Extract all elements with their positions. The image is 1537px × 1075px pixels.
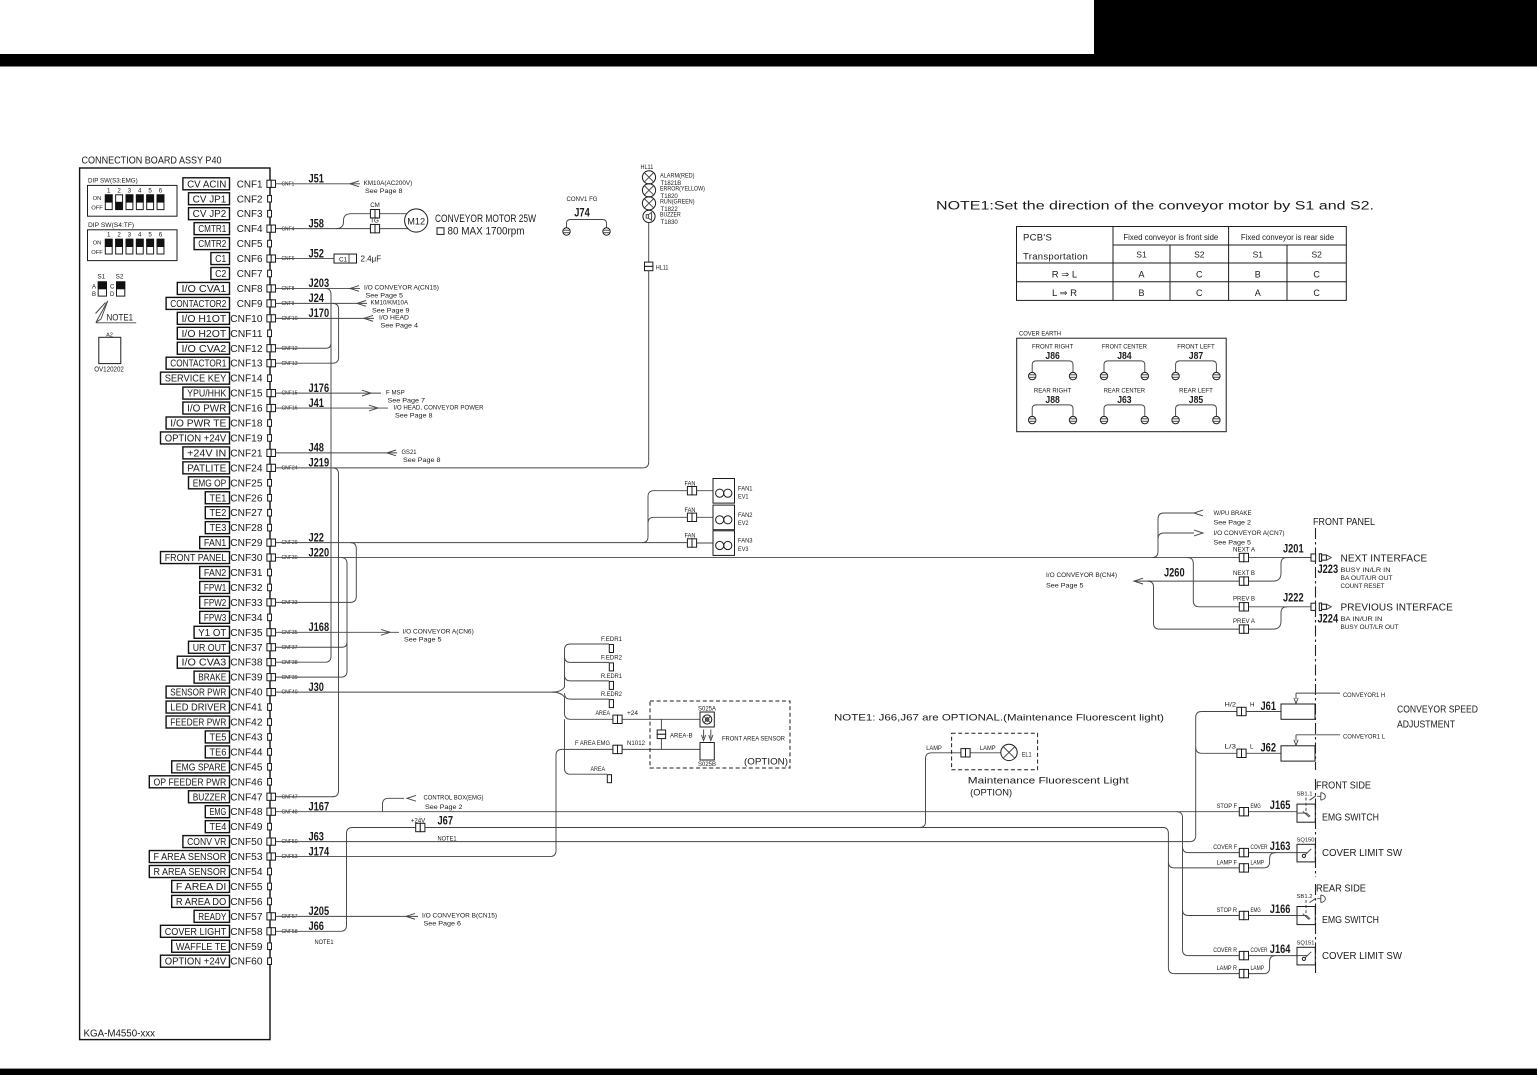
svg-text:CNF42: CNF42 <box>230 718 263 729</box>
svg-text:CONVEYOR1 L: CONVEYOR1 L <box>1343 734 1385 741</box>
connector CNF16 (I/O PWR) <box>183 396 324 415</box>
svg-text:CNF30: CNF30 <box>230 553 263 564</box>
svg-text:J224: J224 <box>1318 612 1339 626</box>
plug J201/J223 NEXT INTERFACE <box>1283 542 1428 590</box>
wire COVER F row <box>1189 852 1298 854</box>
svg-text:J86: J86 <box>1045 350 1060 362</box>
connector CNF21 (+24V IN) <box>183 441 324 460</box>
svg-text:CNF11: CNF11 <box>230 329 263 340</box>
connector CNF60 (OPTION +24V) <box>161 955 272 968</box>
svg-text:S2: S2 <box>1311 250 1322 260</box>
svg-text:AREA: AREA <box>591 766 606 773</box>
svg-text:CNF32: CNF32 <box>230 583 263 594</box>
fan bus vertical <box>642 491 687 543</box>
svg-text:R AREA DO: R AREA DO <box>176 897 227 908</box>
svg-text:NEXT INTERFACE: NEXT INTERFACE <box>1341 553 1428 564</box>
wire J66 (CNF58) <box>276 828 353 932</box>
EMG switch SB1.1 <box>1297 792 1326 823</box>
connector CNF12 (I/O CVA2) <box>177 342 297 355</box>
svg-text:See Page 5: See Page 5 <box>1214 539 1252 546</box>
svg-text:F.EDR2: F.EDR2 <box>601 654 623 661</box>
wire J24 (CNF9) <box>276 300 410 315</box>
svg-text:CM: CM <box>370 202 380 209</box>
wire LAMP R row joins <box>1174 956 1275 974</box>
wire J48 (CNF21) <box>276 449 441 464</box>
connector CNF3 (CV JP2) <box>189 208 272 221</box>
svg-text:+24: +24 <box>627 710 639 717</box>
svg-text:SQ151: SQ151 <box>1297 940 1315 946</box>
svg-text:SQ150: SQ150 <box>1297 837 1315 843</box>
svg-text:CNF33: CNF33 <box>230 598 263 609</box>
svg-text:ON: ON <box>93 241 102 247</box>
stub F.EDR1 <box>601 636 623 653</box>
svg-text:CNF27: CNF27 <box>230 508 263 519</box>
svg-text:I/O PWR: I/O PWR <box>187 404 226 415</box>
svg-text:D: D <box>110 292 115 298</box>
svg-text:NOTE1: J66,J67 are OPTIONAL.(M: NOTE1: J66,J67 are OPTIONAL.(Maintenance… <box>834 713 1164 724</box>
svg-text:KGA-M4550-xxx: KGA-M4550-xxx <box>84 1029 156 1040</box>
connector CNF53 (F AREA SENSOR) <box>149 844 329 863</box>
sensor S025A <box>698 705 717 727</box>
svg-text:C: C <box>110 285 115 291</box>
svg-text:CONVEYOR SPEED: CONVEYOR SPEED <box>1397 705 1478 716</box>
svg-text:See Page 5: See Page 5 <box>1046 583 1084 590</box>
svg-text:CNF28: CNF28 <box>230 523 263 534</box>
svg-text:CNF30: CNF30 <box>282 555 298 561</box>
bus v338.6 J24 to CNF13 <box>333 303 339 363</box>
black bottom border bar <box>0 1069 1537 1075</box>
wire J167 (CNF48) EMG line <box>276 811 1298 813</box>
svg-text:2: 2 <box>117 187 121 194</box>
svg-text:CNF10: CNF10 <box>282 316 298 322</box>
svg-text:J74: J74 <box>574 206 590 220</box>
svg-text:CNF59: CNF59 <box>230 942 263 953</box>
svg-text:COVER LIGHT: COVER LIGHT <box>165 927 227 938</box>
connector CNF37 (UR OUT) <box>189 641 298 654</box>
connector +24V J67 <box>411 814 457 843</box>
connector CNF58 (COVER LIGHT) <box>161 919 325 938</box>
svg-text:J67: J67 <box>438 814 454 828</box>
earth terminal J85 (REAR LEFT) <box>1172 388 1220 424</box>
connector CNF13 (CONTACTOR1) <box>166 357 297 370</box>
connector CNF31 (FAN2) <box>200 567 272 580</box>
fan EV2 <box>713 505 753 530</box>
connector CNF18 (I/O PWR TE) <box>166 417 271 430</box>
svg-text:I/O CVA2: I/O CVA2 <box>182 344 227 355</box>
connector CNF34 (FPW3) <box>200 611 272 624</box>
connector CNF11 (I/O H2OT) <box>177 327 271 340</box>
capacitor C1 2.4uF <box>334 254 381 263</box>
svg-text:CNF39: CNF39 <box>282 675 298 681</box>
svg-text:I/O CVA1: I/O CVA1 <box>182 284 227 295</box>
earth terminal J86 (FRONT RIGHT) <box>1029 344 1077 380</box>
svg-text:6: 6 <box>159 187 163 194</box>
svg-text:3: 3 <box>128 187 132 194</box>
svg-text:BA OUT/UR OUT: BA OUT/UR OUT <box>1341 575 1393 582</box>
fan EV1 <box>713 479 753 504</box>
svg-text:J63: J63 <box>1117 394 1132 406</box>
component A2 <box>94 332 124 373</box>
connector CNF49 (TE4) <box>205 821 271 834</box>
connector L/3 L <box>1225 741 1282 758</box>
connector LAMP <box>926 745 995 757</box>
svg-text:CNF40: CNF40 <box>282 690 298 696</box>
connector CNF7 (C2) <box>211 268 272 281</box>
motor M12 <box>405 209 428 232</box>
potentiometer J61 <box>1281 692 1385 720</box>
connector COVER F J163 <box>1213 839 1290 857</box>
svg-text:C: C <box>1313 270 1320 280</box>
connector CNF29 (FAN1) <box>200 530 324 549</box>
svg-text:R ⇒ L: R ⇒ L <box>1052 270 1077 281</box>
svg-text:CNF41: CNF41 <box>230 703 263 714</box>
svg-text:M12: M12 <box>407 216 425 226</box>
fan connector FAN1 <box>685 480 714 495</box>
svg-text:T1830: T1830 <box>661 219 679 226</box>
svg-text:NOTE1: NOTE1 <box>315 939 335 946</box>
svg-text:CNF8: CNF8 <box>282 286 295 292</box>
branch to CONTROL BOX(EMG) <box>383 795 484 812</box>
svg-text:WAFFLE TE: WAFFLE TE <box>176 942 227 953</box>
svg-text:COVER LIMIT SW: COVER LIMIT SW <box>1322 848 1403 859</box>
svg-text:1: 1 <box>107 232 111 239</box>
svg-text:EMG SPARE: EMG SPARE <box>176 762 227 773</box>
svg-text:LAMP: LAMP <box>1251 965 1265 972</box>
svg-text:FRONT PANEL: FRONT PANEL <box>165 553 227 564</box>
svg-text:CNF7: CNF7 <box>237 269 263 280</box>
svg-text:CNF38: CNF38 <box>282 660 298 666</box>
svg-text:H: H <box>1250 702 1254 709</box>
svg-text:CNF24: CNF24 <box>230 463 263 474</box>
svg-text:TG: TG <box>370 218 379 225</box>
svg-text:I/O H2OT: I/O H2OT <box>182 329 227 340</box>
svg-text:LAMP: LAMP <box>1251 859 1265 866</box>
svg-text:L/3: L/3 <box>1225 743 1237 750</box>
svg-text:EMG: EMG <box>210 807 227 818</box>
svg-text:2: 2 <box>117 232 121 239</box>
svg-text:LAMP: LAMP <box>980 745 996 752</box>
svg-text:CNF16: CNF16 <box>230 404 263 415</box>
svg-text:N1012: N1012 <box>627 740 646 747</box>
NOTE1 under J66 <box>315 939 335 946</box>
maintenance light caption <box>968 776 1129 799</box>
svg-text:CNF9: CNF9 <box>237 299 263 310</box>
svg-text:W/PU BRAKE: W/PU BRAKE <box>1214 510 1253 517</box>
branch J260 to PREV A <box>1148 581 1288 629</box>
connector STOP R J166 <box>1217 902 1291 920</box>
svg-text:J222: J222 <box>1283 591 1304 605</box>
svg-text:Transportation: Transportation <box>1023 252 1088 263</box>
svg-text:CNF13: CNF13 <box>282 361 298 367</box>
svg-text:CNF29: CNF29 <box>230 538 263 549</box>
svg-text:J201: J201 <box>1283 542 1304 556</box>
label conveyor motor <box>435 213 536 238</box>
svg-text:J164: J164 <box>1270 942 1291 956</box>
earth terminal J63 (REAR CENTER) <box>1100 388 1148 424</box>
svg-text:FRONT AREA SENSOR: FRONT AREA SENSOR <box>722 736 785 743</box>
wire J63 (CNF50) conveyor VR line <box>276 836 1196 842</box>
svg-text:AREA: AREA <box>596 710 611 717</box>
connector AREA/+24 <box>596 710 639 724</box>
svg-text:CNF45: CNF45 <box>230 762 263 773</box>
svg-text:LAMP F: LAMP F <box>1217 859 1238 866</box>
svg-text:CONVEYOR MOTOR 25W: CONVEYOR MOTOR 25W <box>435 213 536 225</box>
wire CNF47 stub <box>276 796 334 798</box>
svg-text:CONTACTOR2: CONTACTOR2 <box>170 299 226 310</box>
branch W/PU BRAKE <box>1152 510 1252 558</box>
svg-text:J260: J260 <box>1164 566 1185 580</box>
svg-text:TE4: TE4 <box>210 822 227 833</box>
svg-text:CNF16: CNF16 <box>282 406 298 412</box>
svg-text:SERVICE KEY: SERVICE KEY <box>165 374 227 385</box>
svg-text:TE3: TE3 <box>210 523 227 534</box>
connector CNF8 (I/O CVA1) <box>177 276 329 295</box>
connector CNF38 (I/O CVA3) <box>177 656 297 669</box>
svg-text:STOP R: STOP R <box>1217 907 1238 914</box>
wire F AREA EMG from J174 <box>276 749 701 856</box>
svg-text:COVER EARTH: COVER EARTH <box>1019 331 1061 338</box>
svg-text:See Page 8: See Page 8 <box>403 457 441 464</box>
lamp EL1 <box>1001 744 1032 760</box>
wire HL11 down to J219 line <box>648 271 650 462</box>
svg-text:S2: S2 <box>116 274 124 281</box>
svg-text:CNF35: CNF35 <box>282 630 298 636</box>
svg-text:ON: ON <box>93 196 102 202</box>
svg-text:S1: S1 <box>1253 250 1264 260</box>
svg-text:CNF37: CNF37 <box>230 643 263 654</box>
svg-text:1: 1 <box>107 187 111 194</box>
connector CNF41 (LED DRIVER) <box>166 701 271 714</box>
bus v347 J220 to CNF39 <box>341 558 347 678</box>
svg-text:See Page 8: See Page 8 <box>365 188 403 195</box>
svg-text:FPW3: FPW3 <box>204 613 227 624</box>
svg-text:J163: J163 <box>1270 839 1291 853</box>
svg-text:C: C <box>1196 270 1203 280</box>
svg-text:OPTION +24V: OPTION +24V <box>165 433 227 444</box>
svg-text:COVER R: COVER R <box>1213 947 1237 954</box>
wire J22 (CNF29) to fans <box>276 542 687 544</box>
connector CNF6 (C1) <box>211 246 324 265</box>
svg-text:CNF6: CNF6 <box>282 256 295 262</box>
svg-text:LAMP R: LAMP R <box>1217 965 1238 972</box>
sensor S025B <box>698 743 716 768</box>
svg-text:SB1.2: SB1.2 <box>1297 894 1313 900</box>
svg-text:CMTR2: CMTR2 <box>198 239 226 250</box>
connector CNF50 (CONV VR) <box>183 829 324 848</box>
earth bracket J74 CONV1 FG <box>563 196 610 235</box>
connector CNF27 (TE2) <box>205 507 271 520</box>
speed bus from J63 <box>1196 712 1228 836</box>
svg-text:F AREA EMG: F AREA EMG <box>575 740 610 747</box>
lamp stack HL11 <box>641 165 705 226</box>
svg-text:CNF47: CNF47 <box>282 794 298 800</box>
limit switch SQ150 J163 <box>1297 837 1403 862</box>
selector switch S1 <box>92 274 107 299</box>
svg-text:CNF53: CNF53 <box>230 852 263 863</box>
svg-text:LAMP: LAMP <box>926 745 942 752</box>
connector CNF2 (CV JP1) <box>189 193 272 206</box>
connector CNF1 (CV ACIN) <box>183 172 324 191</box>
connector CNF19 (OPTION +24V) <box>161 432 272 445</box>
svg-text:CV JP1: CV JP1 <box>193 194 227 205</box>
connector CNF56 (R AREA DO) <box>172 895 272 908</box>
svg-text:J62: J62 <box>1261 741 1277 755</box>
svg-text:CNF35: CNF35 <box>230 628 263 639</box>
svg-text:R AREA SENSOR: R AREA SENSOR <box>154 867 227 878</box>
svg-text:80 MAX 1700rpm: 80 MAX 1700rpm <box>448 226 525 238</box>
svg-text:(OPTION): (OPTION) <box>744 757 788 767</box>
NOTE1 optional text <box>834 713 1164 724</box>
wire CNF13 stub <box>276 362 334 364</box>
svg-text:ALARM(RED): ALARM(RED) <box>660 173 695 180</box>
wire J205 (CNF57) <box>276 913 498 928</box>
earth terminal J84 (FRONT CENTER) <box>1100 344 1148 380</box>
svg-text:KM10A(AC200V): KM10A(AC200V) <box>364 180 413 187</box>
svg-text:I/O CVA3: I/O CVA3 <box>182 658 227 669</box>
connector HL11 <box>645 262 670 271</box>
svg-text:(OPTION): (OPTION) <box>970 788 1012 799</box>
svg-text:F AREA DI: F AREA DI <box>176 882 226 893</box>
svg-text:I/O CONVEYOR B(CN15): I/O CONVEYOR B(CN15) <box>422 913 497 920</box>
connector CNF33 (FPW2) <box>200 596 298 609</box>
svg-text:CNF33: CNF33 <box>282 600 298 606</box>
svg-text:FAN2: FAN2 <box>204 568 226 579</box>
svg-text:I/O PWR TE: I/O PWR TE <box>170 419 226 430</box>
svg-text:CNF3: CNF3 <box>237 209 263 220</box>
EMG chain vertical <box>1177 812 1189 956</box>
connector CNF47 (BUZZER) <box>189 791 298 804</box>
svg-text:CNF53: CNF53 <box>282 854 298 860</box>
wire J170 (CNF10) <box>276 315 419 330</box>
svg-text:F AREA SENSOR: F AREA SENSOR <box>154 852 227 863</box>
svg-text:I/O CONVEYOR A(CN6): I/O CONVEYOR A(CN6) <box>403 629 474 636</box>
svg-text:CMTR1: CMTR1 <box>198 224 226 235</box>
NOTE1 callout arrow <box>96 301 137 323</box>
svg-text:BUSY IN/LR IN: BUSY IN/LR IN <box>1341 567 1391 574</box>
svg-text:CV JP2: CV JP2 <box>193 209 227 220</box>
svg-text:ERROR(YELLOW): ERROR(YELLOW) <box>660 186 705 193</box>
svg-text:EV3: EV3 <box>738 546 749 553</box>
svg-text:CNF25: CNF25 <box>230 478 263 489</box>
svg-text:CNF56: CNF56 <box>230 897 263 908</box>
connector CNF42 (FEEDER PWR) <box>166 716 271 729</box>
wire J41 (CNF16) <box>276 404 484 419</box>
svg-text:F MSP: F MSP <box>386 389 405 396</box>
svg-text:OFF: OFF <box>91 206 103 212</box>
connector STOP F EMG J165 <box>1217 798 1291 816</box>
svg-text:COVER F: COVER F <box>1213 844 1237 851</box>
svg-text:COVER: COVER <box>1251 844 1268 851</box>
svg-text:CNF46: CNF46 <box>230 777 263 788</box>
svg-text:FPW1: FPW1 <box>204 583 226 594</box>
svg-text:FAN3: FAN3 <box>738 538 753 545</box>
connector CNF39 (BRAKE) <box>194 671 297 684</box>
svg-text:CNF39: CNF39 <box>230 673 263 684</box>
label FRONT SIDE <box>1316 781 1379 824</box>
wire J52 (CNF6) to C1 <box>276 258 335 260</box>
svg-text:B: B <box>1255 270 1261 280</box>
connector CNF24 (PATLITE) <box>183 456 329 475</box>
connector NEXT B <box>1233 570 1255 585</box>
svg-text:2.4μF: 2.4μF <box>361 254 382 263</box>
svg-text:EV1: EV1 <box>738 494 749 501</box>
connector PREV A <box>1233 618 1256 633</box>
svg-text:CNF13: CNF13 <box>230 359 263 370</box>
svg-text:S1: S1 <box>1136 250 1147 260</box>
svg-text:S025B: S025B <box>698 761 716 768</box>
svg-text:J87: J87 <box>1189 350 1204 362</box>
svg-text:CNF5: CNF5 <box>237 239 263 250</box>
connector NEXT A <box>1233 547 1256 562</box>
connector CNF30 (FRONT PANEL) <box>161 545 330 564</box>
sensor bus split <box>552 650 565 713</box>
svg-text:FRONT SIDE: FRONT SIDE <box>1316 781 1371 792</box>
connector CNF9 (CONTACTOR2) <box>166 291 324 310</box>
maintenance light dashed box <box>952 733 1038 770</box>
svg-text:R.EDR1: R.EDR1 <box>601 673 623 680</box>
fan connector FAN2 <box>685 507 714 522</box>
svg-text:FPW2: FPW2 <box>204 598 226 609</box>
svg-text:I/O CONVEYOR A(CN7): I/O CONVEYOR A(CN7) <box>1214 530 1285 537</box>
connector CNF55 (F AREA DI) <box>172 880 272 893</box>
svg-text:FAN1: FAN1 <box>738 485 753 492</box>
svg-text:CNF15: CNF15 <box>282 391 298 397</box>
svg-text:PREV B: PREV B <box>1233 596 1255 603</box>
svg-text:CNF50: CNF50 <box>230 837 263 848</box>
svg-text:CNF18: CNF18 <box>230 419 263 430</box>
svg-text:J85: J85 <box>1189 394 1204 406</box>
svg-text:CONTACTOR1: CONTACTOR1 <box>170 359 226 370</box>
connector CNF45 (EMG SPARE) <box>172 761 272 774</box>
arrows S025A to S025B <box>702 730 713 741</box>
connector COVER R J164 <box>1213 942 1290 960</box>
svg-text:L ⇒ R: L ⇒ R <box>1052 288 1077 299</box>
svg-text:CNF48: CNF48 <box>230 807 263 818</box>
svg-text:ADJUSTMENT: ADJUSTMENT <box>1397 720 1455 731</box>
connector CNF35 (Y1 OT) <box>194 620 329 639</box>
svg-text:EV2: EV2 <box>738 520 749 527</box>
bus v356 J22 to CNF33 <box>350 543 356 603</box>
svg-text:EMG: EMG <box>1251 803 1261 810</box>
svg-text:C1: C1 <box>215 254 226 265</box>
NOTE1 heading <box>936 201 1374 213</box>
svg-text:CV ACIN: CV ACIN <box>187 179 226 190</box>
svg-text:CNF31: CNF31 <box>230 568 263 579</box>
plug J222/J224 PREVIOUS INTERFACE <box>1283 591 1453 631</box>
front panel boundary dash-dot <box>1315 528 1317 975</box>
black separator bar <box>0 54 1537 67</box>
connector CNF15 (YPU/HHK) <box>183 381 329 400</box>
connector CNF57 (READY) <box>194 904 329 923</box>
connection board assy P40 outline <box>80 156 270 1040</box>
svg-text:CNF37: CNF37 <box>282 645 298 651</box>
svg-text:NEXT A: NEXT A <box>1233 547 1256 554</box>
limit switch SQ151 J164 <box>1297 940 1403 965</box>
svg-text:J223: J223 <box>1318 562 1339 576</box>
connector CNF59 (WAFFLE TE) <box>172 940 272 953</box>
svg-text:CNF2: CNF2 <box>237 194 263 205</box>
svg-text:SB1.1: SB1.1 <box>1297 792 1313 798</box>
wire J67 line to fluorescent lamp and rear lamps <box>353 828 1169 834</box>
svg-text:FEEDER PWR: FEEDER PWR <box>170 718 226 729</box>
svg-text:BUSY OUT/LR OUT: BUSY OUT/LR OUT <box>1341 624 1399 631</box>
svg-text:5: 5 <box>148 187 152 194</box>
title block black bar top-right <box>1094 0 1537 66</box>
fuse TG <box>370 218 379 233</box>
wire LAMP F row joins <box>1174 853 1275 868</box>
svg-text:DIP SW(S3:EMG): DIP SW(S3:EMG) <box>88 177 138 184</box>
wire buzzer to HL11 connector <box>648 223 650 263</box>
